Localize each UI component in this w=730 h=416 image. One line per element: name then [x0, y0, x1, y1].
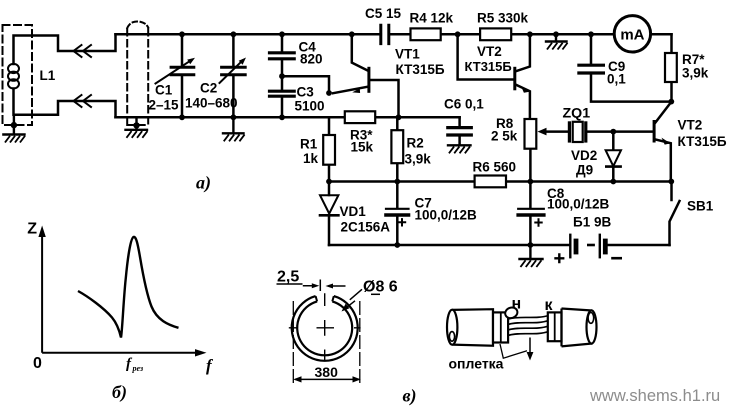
wire top rail — [116, 33, 672, 36]
svg-text:140–680: 140–680 — [185, 96, 238, 111]
quartz ZQ1 body — [573, 122, 583, 142]
ground (L1 shield) — [3, 115, 24, 135]
transistor VT2 mid base bar — [513, 67, 516, 91]
junction dot VD2 node — [610, 129, 616, 135]
diode VD2 wires — [612, 132, 615, 182]
resistor R2 — [391, 130, 403, 163]
svg-text:а): а) — [196, 173, 211, 194]
arrow C1 — [187, 58, 195, 64]
svg-text:н: н — [512, 296, 522, 313]
svg-text:R2: R2 — [407, 136, 424, 151]
junction dots bottom rail — [179, 114, 185, 120]
shield box of L1 — [3, 25, 33, 125]
svg-text:ZQ1: ZQ1 — [563, 106, 591, 122]
junction dots bus1 — [326, 179, 332, 185]
svg-text:2 5k: 2 5k — [491, 129, 518, 144]
junction dots top rail — [179, 31, 185, 37]
bus2 wire — [329, 244, 670, 247]
transistor VT1 emitter arrow — [352, 88, 360, 93]
svg-text:VD2: VD2 — [571, 148, 597, 163]
ground (C2) — [223, 117, 244, 133]
wire L1 bottom — [14, 89, 116, 118]
wire bottom rail — [116, 116, 460, 119]
svg-text:3,9k: 3,9k — [405, 152, 432, 167]
resistor R5 — [480, 28, 511, 40]
resistor R6 — [475, 176, 506, 188]
ground (bus2) — [520, 245, 543, 259]
svg-text:2–15: 2–15 — [149, 98, 180, 113]
svg-text:820: 820 — [300, 52, 323, 67]
svg-text:б): б) — [112, 382, 127, 403]
svg-text:C3: C3 — [297, 85, 315, 100]
cable link arrows top — [74, 45, 82, 57]
junction dot C4/C3 tap — [279, 73, 285, 79]
switch SB1 — [670, 182, 680, 246]
svg-text:0: 0 — [33, 355, 42, 372]
ring inner — [297, 301, 352, 355]
svg-text:C5 15: C5 15 — [365, 6, 402, 21]
svg-text:R6 560: R6 560 — [473, 160, 517, 175]
svg-text:5100: 5100 — [295, 99, 325, 114]
impedance curve — [78, 237, 179, 338]
svg-text:www.shems.h1.ru: www.shems.h1.ru — [589, 387, 720, 405]
battery thick plates — [574, 239, 579, 255]
resistor R2 wires — [396, 117, 399, 181]
capacitor C1 (variable) — [181, 34, 184, 117]
junction dot VT1 emitter node — [326, 90, 332, 96]
svg-text:3,9k: 3,9k — [682, 66, 709, 81]
resistor R8 — [525, 119, 537, 149]
cable right body — [562, 309, 593, 347]
svg-text:Ø8 6: Ø8 6 — [363, 279, 398, 296]
junction dot R7/VT2 collector — [668, 99, 674, 105]
svg-text:Б1 9В: Б1 9В — [573, 215, 611, 230]
svg-text:0,1: 0,1 — [607, 72, 626, 87]
ring centerlines — [289, 293, 361, 360]
ground (top rail stub) — [546, 34, 567, 41]
svg-text:mA: mA — [620, 26, 644, 43]
svg-text:VT2: VT2 — [477, 44, 502, 59]
capacitor C9 — [591, 34, 671, 101]
svg-text:VT1: VT1 — [395, 47, 420, 62]
capacitor C8 (electrolytic) — [529, 182, 532, 246]
wire meter to R7 — [651, 34, 672, 53]
capacitor C3 — [281, 76, 284, 117]
svg-text:15k: 15k — [351, 140, 374, 155]
junction dots bus2 — [394, 242, 400, 248]
milliammeter PA1 — [614, 16, 650, 52]
junction dot cable screen — [133, 122, 139, 128]
capacitor C4 — [281, 34, 284, 76]
svg-text:КТ315Б: КТ315Б — [678, 134, 727, 149]
transistor VT2 (middle) — [516, 34, 530, 71]
capacitor C6 — [458, 117, 461, 145]
svg-text:100,0/12В: 100,0/12В — [415, 208, 478, 223]
inductor L1 — [8, 64, 19, 73]
svg-text:100,0/12В: 100,0/12В — [547, 197, 610, 212]
arrow C2 — [239, 58, 246, 65]
resistor R8 bottom wire — [529, 149, 532, 182]
connecting wires — [508, 316, 549, 336]
transistor VT2 right emitter arrow — [662, 138, 671, 145]
wiper arrow into R8 — [538, 128, 547, 136]
shield box 2 (cable screen) — [127, 29, 148, 125]
transistor VT2 (right) — [655, 102, 671, 123]
resistor R7* — [665, 53, 677, 82]
svg-text:R1: R1 — [300, 137, 318, 152]
wire VT2mid base — [458, 34, 514, 79]
wire L1 top — [14, 34, 116, 64]
ring (one-turn loop) outer — [292, 296, 358, 361]
svg-text:R4 12k: R4 12k — [410, 11, 454, 26]
bus1 wire — [329, 180, 672, 183]
svg-text:VD1: VD1 — [340, 204, 367, 219]
svg-text:оплетка: оплетка — [449, 356, 504, 372]
diode VD2 — [606, 150, 621, 166]
battery Б1 — [569, 235, 571, 257]
wire R7 bottom — [670, 82, 673, 102]
capacitor C5 — [381, 25, 389, 43]
cable link arrows bottom — [74, 95, 82, 107]
graph impedance: axis Z — [41, 233, 43, 353]
svg-text:2,5: 2,5 — [277, 269, 299, 286]
svg-text:C6 0,1: C6 0,1 — [444, 97, 484, 112]
resistor R1 wires — [328, 117, 331, 181]
ring gap end caps — [316, 296, 334, 301]
svg-text:КТ315Б: КТ315Б — [396, 62, 445, 77]
transistor VT1 — [352, 34, 368, 70]
cable left body — [452, 309, 493, 346]
svg-text:R5 330k: R5 330k — [477, 11, 529, 26]
capacitor C7 (electrolytic) — [396, 182, 399, 246]
svg-text:КТ315Б: КТ315Б — [465, 59, 512, 74]
svg-text:SB1: SB1 — [687, 199, 714, 214]
svg-text:C2: C2 — [200, 81, 217, 96]
svg-text:Д9: Д9 — [576, 163, 593, 178]
ground (cable screen) — [126, 117, 148, 130]
resistor R3* — [345, 111, 375, 123]
svg-text:Z: Z — [27, 221, 37, 238]
junction dot R3/R2 node — [396, 114, 402, 120]
svg-text:380: 380 — [315, 364, 339, 380]
svg-text:2С156А: 2С156А — [341, 220, 391, 235]
graph axis f — [42, 352, 198, 354]
winding start loop — [504, 306, 519, 320]
resistor R4 — [411, 28, 441, 40]
quartz ZQ1 wires + wiper arrow — [545, 130, 653, 133]
svg-text:в): в) — [403, 386, 417, 407]
junction dot L1 shield — [11, 122, 17, 128]
wire C4/C3 tap to emitter — [282, 76, 329, 93]
svg-text:L1: L1 — [40, 68, 56, 83]
cable left collar — [493, 312, 508, 342]
svg-text:1k: 1k — [303, 151, 319, 166]
cable right collar — [548, 312, 562, 341]
ground (C6) — [448, 144, 471, 146]
diode VD1 (2С156А) — [328, 182, 331, 246]
svg-text:рез: рез — [132, 364, 144, 373]
transistor VT2 right base bar — [653, 120, 656, 143]
svg-text:VT2: VT2 — [678, 118, 703, 133]
transistor VT1 base bar — [367, 67, 370, 93]
transistor VT2 mid emitter arrow — [521, 86, 530, 93]
capacitor C2 (variable) — [232, 34, 235, 117]
resistor R1 — [323, 135, 335, 165]
svg-text:C1: C1 — [155, 83, 173, 98]
leader lines braid — [500, 344, 527, 358]
quartz ZQ1 plates — [568, 121, 571, 142]
